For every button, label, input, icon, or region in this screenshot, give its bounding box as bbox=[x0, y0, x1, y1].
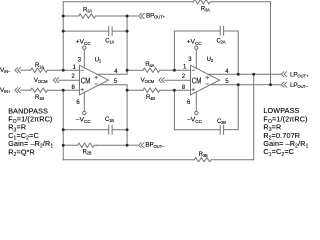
terminal +Vcc U1 bbox=[83, 46, 86, 49]
resistor R1A bbox=[31, 68, 48, 72]
resistor R2B bbox=[78, 143, 97, 147]
svg-text:C1B: C1B bbox=[105, 117, 114, 123]
svg-text:C1A: C1A bbox=[105, 39, 114, 45]
op-amp U2 output minus bbox=[206, 83, 208, 85]
wire C2A feedback box left edge bbox=[173, 31, 175, 70]
node Vin- input chevron bbox=[15, 68, 20, 73]
terminal +Vcc U2 bbox=[195, 46, 198, 49]
node dot C2A out4 bbox=[237, 73, 240, 76]
wire R4B to U2 pin8 bbox=[160, 89, 191, 91]
svg-text:–VCC: –VCC bbox=[76, 117, 92, 125]
wire U2 out4 to LPout+ bbox=[208, 73, 281, 75]
text block LOWPASS design equations bbox=[263, 106, 308, 158]
svg-text:LPOUT+: LPOUT+ bbox=[290, 71, 309, 78]
svg-text:1: 1 bbox=[183, 64, 187, 70]
svg-text:C2A: C2A bbox=[217, 39, 226, 45]
wire U2 out5 to LPout- bbox=[211, 84, 282, 86]
wire U1 pin3 bbox=[83, 50, 85, 69]
resistor R3A bbox=[193, 0, 212, 4]
svg-text:R2A: R2A bbox=[83, 7, 92, 13]
svg-text:3: 3 bbox=[78, 57, 82, 63]
svg-text:3: 3 bbox=[188, 57, 192, 63]
node dot U2 pin8 box bbox=[173, 89, 176, 92]
wire VOCM to U1 pin2 bbox=[59, 79, 80, 81]
svg-text:FO=1/(2πRC): FO=1/(2πRC) bbox=[263, 114, 307, 125]
svg-text:LPOUT–: LPOUT– bbox=[290, 82, 309, 89]
wire U1 out4 bbox=[97, 70, 127, 74]
node dot BPout+ R4A bbox=[126, 69, 129, 72]
chevron VOCM U2 bbox=[159, 78, 164, 83]
wire left rail upper (node A) bbox=[62, 2, 64, 71]
wire R2A to mid rail bbox=[96, 15, 127, 17]
wire mid rail lower (BPout- node) bbox=[126, 90, 128, 145]
wire C1A row right bbox=[112, 30, 127, 32]
wire C1A row left bbox=[63, 30, 108, 32]
wire R2A row bbox=[63, 15, 78, 17]
node dot BPout- R4B bbox=[126, 89, 129, 92]
svg-text:2: 2 bbox=[72, 74, 76, 80]
wire BPout- stub bbox=[127, 144, 137, 146]
resistor R4A bbox=[143, 68, 160, 72]
svg-text:+VCC: +VCC bbox=[187, 38, 203, 46]
svg-text:FO=1/(2πRC): FO=1/(2πRC) bbox=[8, 115, 52, 126]
terminal -Vcc U2 bbox=[195, 111, 198, 114]
wire R2B to mid rail bbox=[97, 144, 127, 146]
resistor R4B bbox=[143, 88, 160, 92]
svg-text:–VCC: –VCC bbox=[187, 117, 203, 125]
node dot A-R2A bbox=[62, 15, 65, 18]
svg-text:C2B: C2B bbox=[217, 119, 226, 125]
chevron LPout+ bbox=[281, 72, 286, 77]
capacitor C1B bbox=[109, 125, 112, 134]
op-amp U2 input minus bbox=[192, 69, 194, 71]
node dot B-pin8 bbox=[62, 89, 65, 92]
op-amp U1 input minus bbox=[81, 69, 83, 71]
wire C2B feedback box left edge bbox=[173, 90, 175, 130]
node dot BPout- R2B bbox=[126, 144, 129, 147]
terminal -Vcc U1 bbox=[83, 111, 86, 114]
wire C1B row left bbox=[63, 129, 108, 131]
node dot B-R2B bbox=[62, 144, 65, 147]
wire Vin+ lead bbox=[21, 89, 31, 91]
svg-text:2: 2 bbox=[182, 74, 186, 80]
capacitor C1A bbox=[109, 27, 112, 36]
node dot BPout+ C1A bbox=[126, 30, 129, 33]
node dot BPout- C1B bbox=[126, 128, 129, 131]
resistor R1B bbox=[31, 88, 48, 92]
resistor R2A bbox=[79, 14, 97, 18]
op-amp U1 output minus bbox=[95, 83, 97, 85]
svg-text:C1=C2=C: C1=C2=C bbox=[263, 147, 294, 158]
wire C2A feedback box top edge left bbox=[174, 30, 220, 32]
wire LPout+ rail down to R3B bbox=[253, 74, 255, 160]
wire U2 pin6 bbox=[195, 92, 197, 111]
svg-text:R2B: R2B bbox=[83, 149, 92, 155]
svg-text:BPOUT+: BPOUT+ bbox=[146, 13, 166, 20]
wire LPout- rail up to R3A bbox=[270, 2, 272, 85]
op-amp U2 input plus bbox=[192, 88, 194, 90]
wire bottom horizontal right bbox=[211, 159, 253, 161]
svg-text:BPOUT–: BPOUT– bbox=[145, 142, 165, 149]
wire R2B row left bbox=[63, 144, 77, 146]
svg-text:R4A: R4A bbox=[145, 62, 154, 68]
wire BPout+ stub bbox=[127, 15, 137, 17]
svg-text:6: 6 bbox=[187, 100, 191, 106]
wire top horizontal (node A to LPout-) bbox=[63, 1, 193, 3]
chevron BPout- bbox=[139, 143, 144, 148]
wire R1B to U1 pin8 bbox=[48, 89, 80, 91]
wire R1A to U1 pin1 bbox=[48, 69, 80, 71]
resistor R3B bbox=[194, 158, 211, 162]
node dot A-pin1 bbox=[62, 69, 65, 72]
svg-text:VOCM: VOCM bbox=[141, 77, 155, 84]
wire top right bbox=[213, 1, 271, 3]
svg-text:U2: U2 bbox=[207, 57, 214, 63]
svg-text:CM: CM bbox=[192, 76, 202, 85]
svg-text:6: 6 bbox=[76, 100, 80, 106]
node dot C2B out5 bbox=[237, 83, 240, 86]
svg-text:R3B: R3B bbox=[199, 152, 208, 158]
svg-text:R1B: R1B bbox=[35, 95, 44, 101]
svg-text:R3A: R3A bbox=[201, 7, 210, 13]
svg-text:VIN+: VIN+ bbox=[0, 87, 11, 94]
wire Vin- lead bbox=[21, 69, 31, 71]
node dot LPout+ R3B rail bbox=[252, 73, 255, 76]
node dot U2 pin1 box bbox=[173, 69, 176, 72]
wire C2B feedback box bottom edge right bbox=[224, 129, 239, 131]
svg-text:R1A: R1A bbox=[35, 63, 44, 69]
svg-text:R2=Q*R: R2=Q*R bbox=[8, 147, 35, 158]
chevron VOCM U1 bbox=[53, 78, 58, 83]
text block BANDPASS design equations bbox=[8, 106, 53, 158]
op-amp U2 output plus bbox=[206, 76, 208, 78]
svg-text:+VCC: +VCC bbox=[76, 38, 92, 46]
node Vin+ input chevron bbox=[15, 88, 20, 93]
svg-text:VIN–: VIN– bbox=[0, 67, 11, 74]
wire C2B feedback box bottom edge left bbox=[174, 129, 220, 131]
op-amp U1 output plus bbox=[95, 76, 97, 78]
wire VOCM to U2 pin2 bbox=[164, 79, 190, 81]
node dot B-C1B bbox=[62, 128, 65, 131]
wire U2 pin3 bbox=[195, 50, 197, 69]
op-amp U1 triangle bbox=[80, 65, 109, 95]
chevron BPout+ bbox=[139, 14, 144, 19]
wire left rail lower (node B) bbox=[62, 90, 64, 160]
op-amp U2 triangle bbox=[191, 65, 220, 95]
capacitor C2A bbox=[220, 26, 223, 35]
op-amp U1 input plus bbox=[81, 88, 83, 90]
wire C2A feedback box top edge right bbox=[224, 30, 239, 32]
wire R4A row bbox=[127, 69, 143, 71]
wire U1 pin6 bbox=[83, 92, 85, 111]
wire R4A to U2 pin1 bbox=[160, 69, 191, 71]
wire bottom horizontal left bbox=[63, 159, 194, 161]
svg-text:VOCM: VOCM bbox=[34, 77, 48, 84]
node dot A-C1A bbox=[62, 30, 65, 33]
wire R4B row bbox=[127, 89, 143, 91]
capacitor C2B bbox=[220, 125, 223, 134]
svg-text:R4B: R4B bbox=[146, 95, 155, 101]
wire C1B row right bbox=[112, 129, 127, 131]
node dot LPout- R3A rail bbox=[269, 83, 272, 86]
wire C2B feedback box right edge bbox=[237, 85, 239, 130]
svg-text:CM: CM bbox=[81, 76, 91, 85]
chevron LPout- bbox=[281, 82, 286, 87]
node dot BPout+ top bbox=[126, 15, 129, 18]
wire mid rail upper (BPout+ node) bbox=[126, 16, 128, 70]
wire C2A feedback box right edge bbox=[237, 31, 239, 74]
wire U1 out5 bbox=[100, 85, 128, 91]
svg-text:U1: U1 bbox=[95, 57, 102, 63]
